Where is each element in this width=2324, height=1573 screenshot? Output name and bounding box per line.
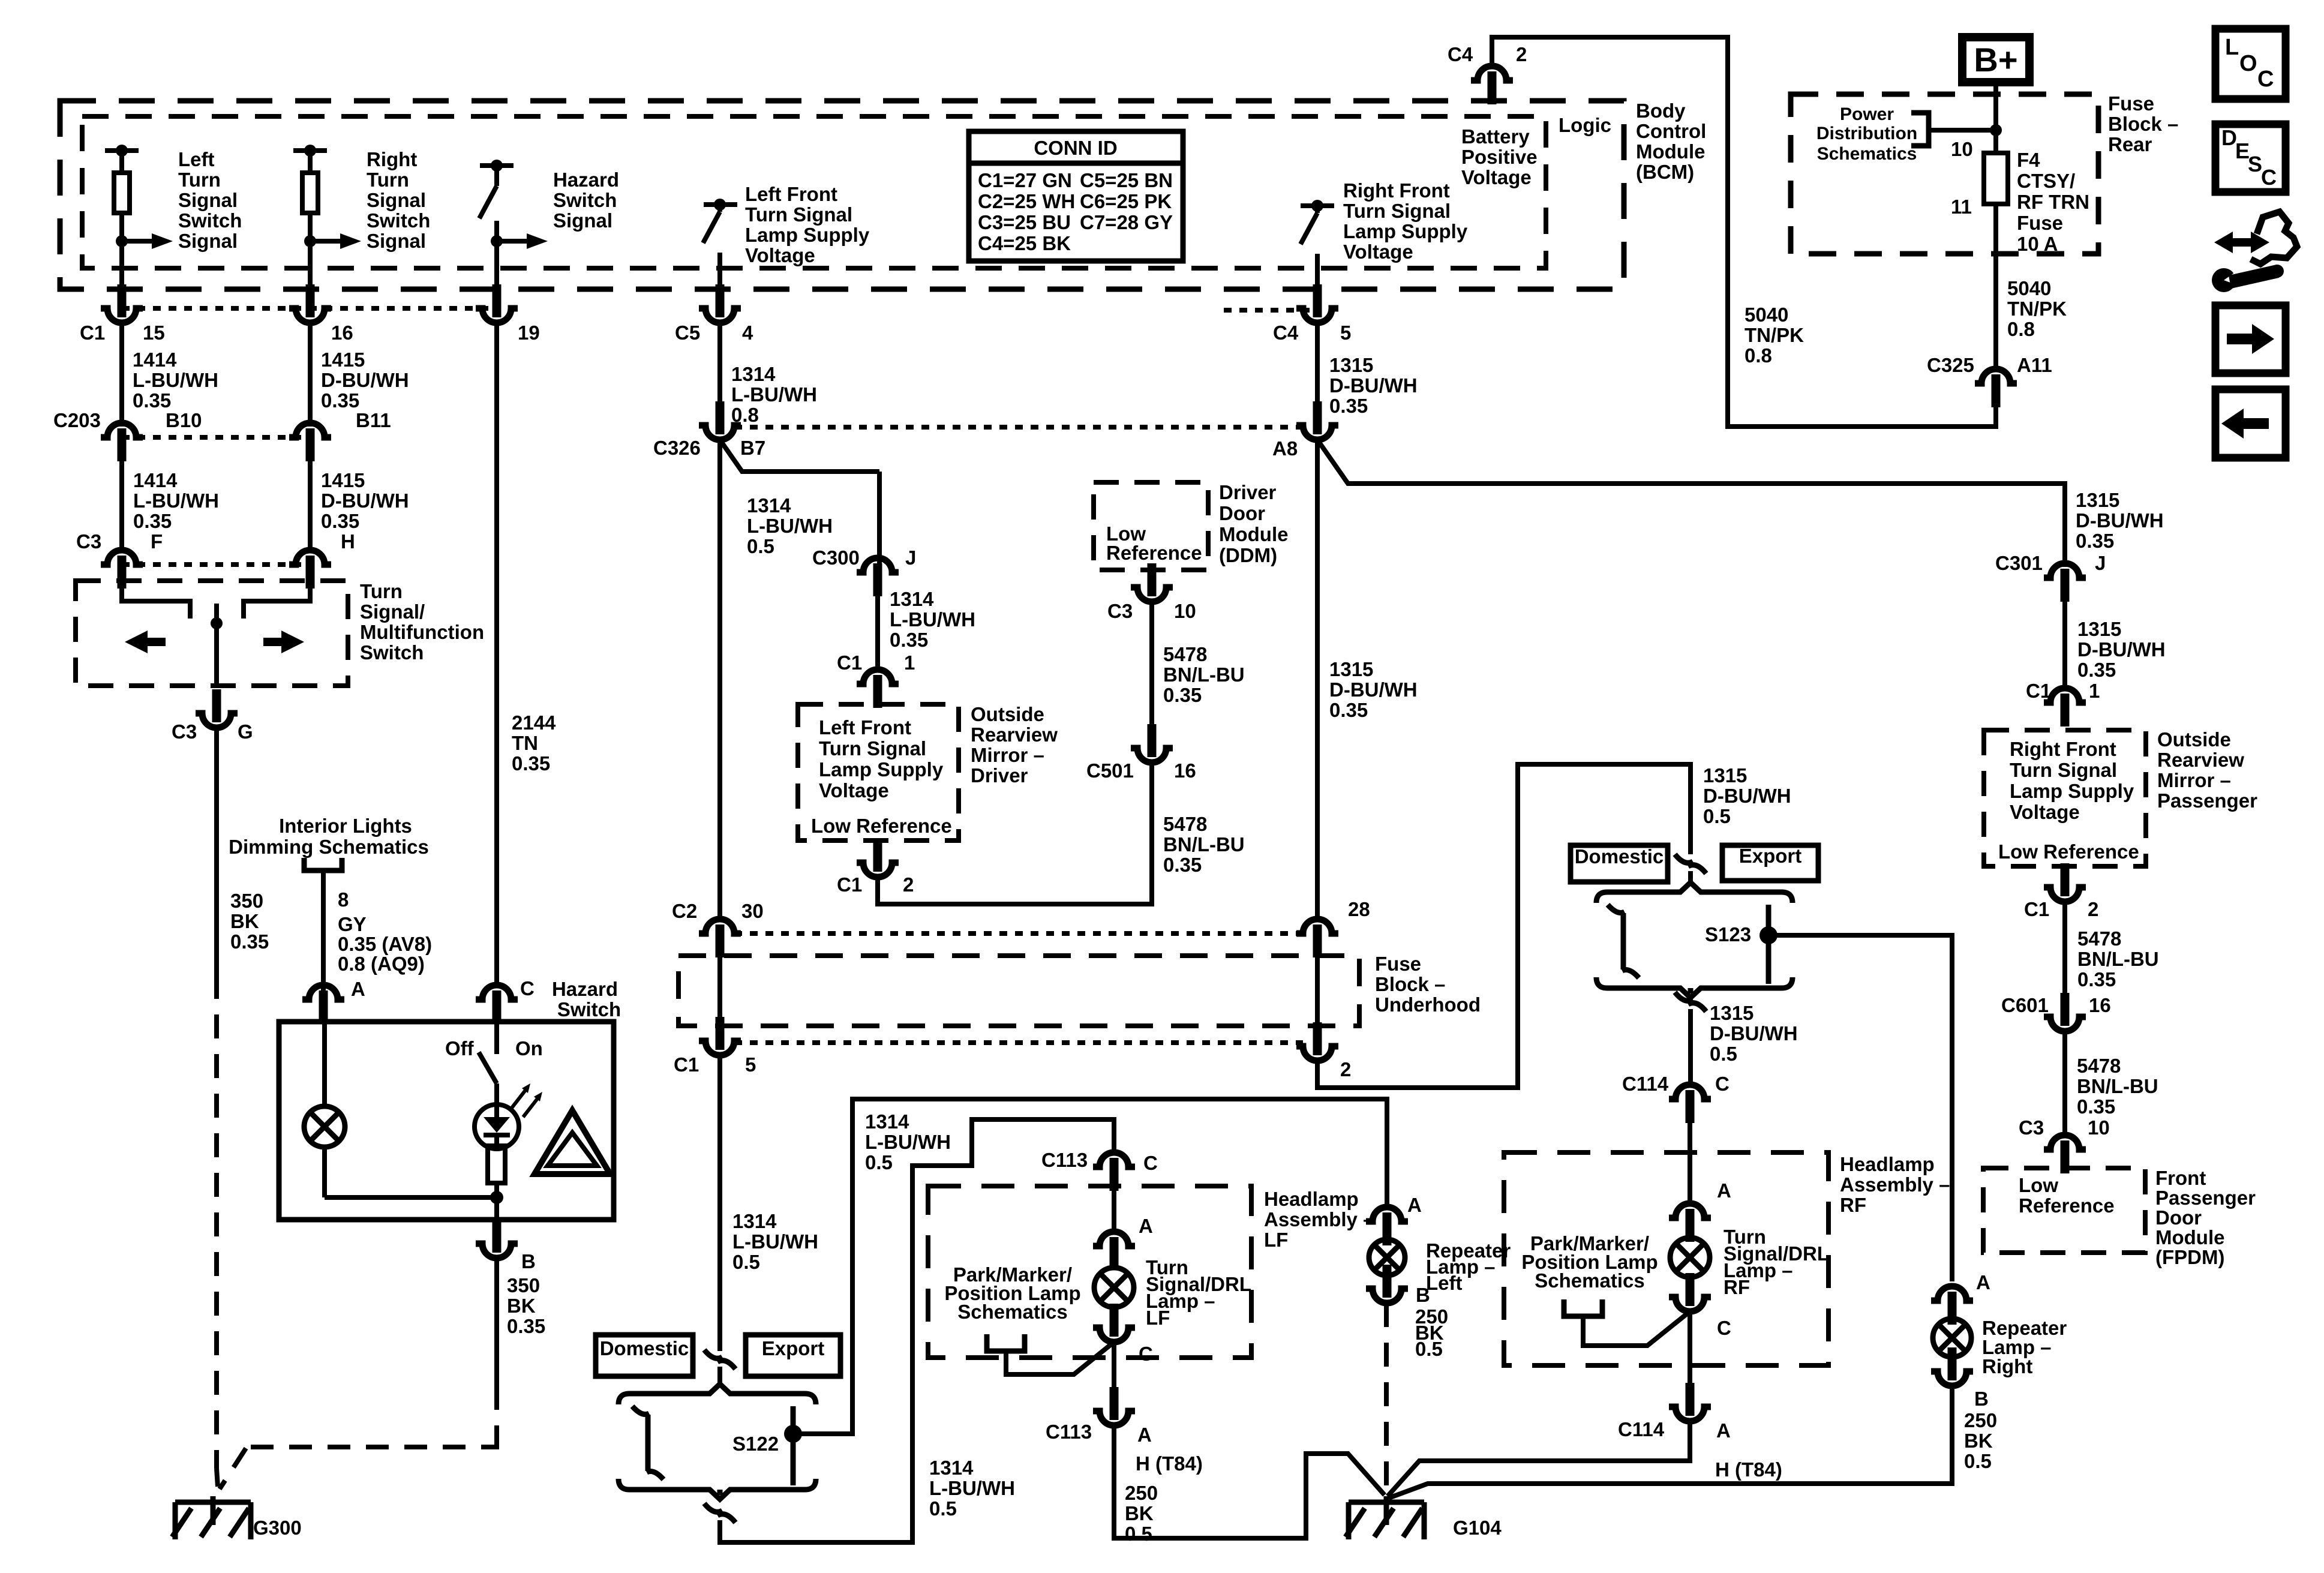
svg-text:Turn Signal: Turn Signal <box>2010 759 2117 781</box>
svg-text:Hazard: Hazard <box>552 978 618 1000</box>
wire hazard switch common <box>494 1022 499 1054</box>
svg-text:Front: Front <box>2155 1167 2206 1189</box>
label box Domestic <box>596 1335 693 1376</box>
svg-text:0.35: 0.35 <box>2077 659 2116 681</box>
svg-text:H (T84): H (T84) <box>1136 1452 1203 1475</box>
svg-text:Multifunction: Multifunction <box>360 621 484 643</box>
svg-text:15: 15 <box>143 322 165 344</box>
svg-text:BK: BK <box>1125 1502 1154 1524</box>
svg-text:L-BU/WH: L-BU/WH <box>133 490 219 512</box>
svg-text:C1: C1 <box>2024 898 2049 920</box>
svg-text:GY: GY <box>338 913 367 935</box>
svg-text:C: C <box>1717 1317 1731 1339</box>
svg-text:Rear: Rear <box>2108 133 2152 155</box>
svg-text:L: L <box>2225 35 2239 60</box>
svg-text:Driver: Driver <box>1219 481 1277 503</box>
svg-text:1314: 1314 <box>929 1457 974 1479</box>
svg-text:C: C <box>1139 1343 1153 1365</box>
svg-text:0.35: 0.35 <box>321 389 359 412</box>
wire dashed diagonal to G300 <box>220 1448 246 1489</box>
wire <box>1993 204 1998 369</box>
svg-text:Assembly –: Assembly – <box>1264 1208 1374 1230</box>
svg-text:0.35: 0.35 <box>1329 395 1368 417</box>
svg-text:J: J <box>905 547 916 569</box>
svg-text:Block –: Block – <box>2108 113 2178 135</box>
wire 350 BK dashed to G300 <box>214 975 219 1469</box>
svg-text:(DDM): (DDM) <box>1219 544 1277 566</box>
svg-text:1314: 1314 <box>731 363 776 385</box>
connector line (dotted) C203 <box>122 435 310 440</box>
svg-text:Logic: Logic <box>1559 114 1611 136</box>
wire 1415 <box>308 323 313 427</box>
svg-text:10: 10 <box>2088 1116 2110 1139</box>
wire <box>308 241 313 288</box>
svg-text:C3: C3 <box>1107 600 1133 622</box>
svg-text:D-BU/WH: D-BU/WH <box>321 490 409 512</box>
connector C203 pin B10 <box>101 423 143 437</box>
connector line (dotted) C3 <box>122 562 310 567</box>
svg-text:Signal: Signal <box>178 230 238 252</box>
svg-text:A: A <box>1976 1271 1990 1293</box>
svg-text:1315: 1315 <box>2076 489 2119 511</box>
svg-text:A: A <box>1717 1179 1731 1202</box>
wire <box>875 595 880 670</box>
connector C114 pin A <box>1686 1383 1695 1416</box>
svg-text:30: 30 <box>741 900 764 922</box>
icon jump arrow with wrench <box>2214 232 2269 253</box>
connector C114 pin C <box>1669 1085 1711 1099</box>
svg-text:350: 350 <box>230 890 263 912</box>
svg-text:1315: 1315 <box>1703 764 1747 786</box>
connector headlamp RF pin C (internal) <box>1686 1273 1695 1306</box>
svg-text:10: 10 <box>1951 138 1973 160</box>
wire hazard 19 to hazard switch <box>494 323 499 986</box>
wire mirror low ref to C501 <box>878 762 1152 904</box>
connector C3 pin F <box>101 550 143 565</box>
svg-text:C326: C326 <box>653 437 701 459</box>
svg-text:A8: A8 <box>1272 437 1298 460</box>
wire <box>2062 902 2067 997</box>
svg-text:Right Front: Right Front <box>2010 738 2116 760</box>
svg-text:Rearview: Rearview <box>971 724 1058 746</box>
svg-text:0.5: 0.5 <box>1125 1523 1152 1545</box>
connector C325 pin A11 <box>1975 369 2017 383</box>
svg-text:0.8: 0.8 <box>1744 344 1772 367</box>
svg-text:5040: 5040 <box>1744 304 1788 326</box>
node S122 <box>784 1425 802 1443</box>
lamp hazard illumination <box>322 1022 327 1107</box>
wire <box>2062 601 2067 688</box>
connector C301 pin J <box>2044 563 2086 578</box>
svg-text:A11: A11 <box>2017 354 2052 376</box>
svg-text:Switch: Switch <box>553 189 617 211</box>
svg-text:1314: 1314 <box>865 1110 909 1133</box>
wire 1414 <box>119 323 124 427</box>
svg-text:250: 250 <box>1964 1409 1997 1431</box>
svg-text:On: On <box>515 1037 543 1059</box>
label box Export <box>1722 845 1818 881</box>
wire <box>119 459 124 551</box>
svg-text:0.35: 0.35 <box>133 510 172 532</box>
svg-text:(BCM): (BCM) <box>1636 161 1694 183</box>
wire <box>494 1083 499 1105</box>
svg-text:Left Front: Left Front <box>819 716 911 739</box>
svg-text:2: 2 <box>2088 898 2098 920</box>
module box Outside Rearview Mirror Driver <box>798 704 959 840</box>
svg-text:0.35: 0.35 <box>133 389 171 412</box>
svg-text:D-BU/WH: D-BU/WH <box>1329 374 1418 397</box>
svg-text:1414: 1414 <box>133 469 178 491</box>
svg-text:1314: 1314 <box>747 494 791 517</box>
svg-text:C: C <box>2257 67 2274 92</box>
reference bracket park/marker LF <box>987 1334 1025 1351</box>
wire A8 down to 28 <box>1315 440 1320 922</box>
splice branch left <box>645 1415 651 1471</box>
svg-text:L-BU/WH: L-BU/WH <box>890 608 975 631</box>
svg-text:Hazard: Hazard <box>553 169 619 191</box>
svg-text:0.35: 0.35 <box>230 930 269 953</box>
svg-text:TN/PK: TN/PK <box>1744 324 1804 346</box>
icon DESC box <box>2215 124 2286 192</box>
connector line (dotted) C4 <box>1224 308 1317 313</box>
connector line (dotted) C1 <box>122 306 497 311</box>
wire <box>494 1197 499 1220</box>
svg-text:Lamp Supply: Lamp Supply <box>819 758 944 781</box>
svg-text:C1: C1 <box>837 873 862 896</box>
svg-text:Fuse: Fuse <box>2017 212 2063 234</box>
wire 1315 from fuse block 2 to domestic/export <box>1317 764 1691 1088</box>
svg-text:RF: RF <box>1724 1276 1750 1298</box>
svg-text:C1: C1 <box>674 1053 699 1076</box>
svg-text:Low Reference: Low Reference <box>1998 840 2139 863</box>
svg-text:BK: BK <box>1964 1430 1993 1452</box>
svg-text:C3: C3 <box>76 530 101 553</box>
wire <box>717 1367 722 1384</box>
module box Headlamp Assembly LF <box>928 1186 1251 1358</box>
svg-text:250: 250 <box>1125 1482 1158 1504</box>
connector C3 pin 10 (FPDM) <box>2044 1135 2086 1149</box>
svg-text:D-BU/WH: D-BU/WH <box>1703 785 1791 807</box>
svg-text:Voltage: Voltage <box>1343 241 1413 263</box>
node center pole <box>211 617 223 629</box>
connector C3 pin 10 (DDM) <box>1148 563 1157 596</box>
svg-text:Block –: Block – <box>1375 973 1445 995</box>
svg-text:1: 1 <box>2089 680 2100 702</box>
svg-text:B7: B7 <box>740 437 765 459</box>
svg-text:D-BU/WH: D-BU/WH <box>1710 1022 1798 1044</box>
svg-text:G104: G104 <box>1453 1517 1502 1539</box>
svg-text:1415: 1415 <box>321 469 365 491</box>
svg-text:5478: 5478 <box>2077 927 2121 950</box>
wire C1/5 down <box>717 1055 722 1351</box>
connector C1 pin 2 (passenger mirror) <box>2061 863 2070 896</box>
wire C5 to C326 <box>717 323 722 406</box>
lamp turn signal/DRL LF <box>1094 1268 1134 1307</box>
node fuse feed <box>1990 124 2002 136</box>
arrow right (turn signal) <box>281 631 304 653</box>
svg-text:BK: BK <box>507 1295 536 1317</box>
splice branch right S123 <box>1766 905 1771 984</box>
wire to C114 C <box>1688 1009 1693 1085</box>
svg-text:0.35: 0.35 <box>1163 684 1202 706</box>
switch left front turn signal lamp supply <box>704 202 737 207</box>
ground G104 <box>1349 1500 1424 1505</box>
svg-text:0.8: 0.8 <box>2007 318 2035 340</box>
svg-text:16: 16 <box>331 322 353 344</box>
module box Outside Rearview Mirror Passenger <box>1984 730 2146 866</box>
svg-text:1315: 1315 <box>1710 1002 1753 1024</box>
svg-text:C1: C1 <box>2026 680 2051 702</box>
svg-text:C4: C4 <box>1273 322 1299 344</box>
module box Turn Signal/Multifunction Switch <box>76 581 348 686</box>
svg-text:16: 16 <box>2089 994 2111 1016</box>
connector repeater left pin A <box>1366 1207 1408 1221</box>
svg-text:1414: 1414 <box>133 349 177 371</box>
inline connector <box>1688 988 1694 993</box>
svg-text:O: O <box>2239 51 2257 76</box>
svg-text:Signal/: Signal/ <box>360 601 425 623</box>
inline connector <box>704 1350 722 1358</box>
wire C113 A to G104 <box>1114 1425 1385 1538</box>
wire rail <box>325 1195 497 1200</box>
svg-text:C113: C113 <box>1046 1421 1092 1443</box>
svg-text:0.8 (AQ9): 0.8 (AQ9) <box>338 953 425 975</box>
wire left contact <box>122 587 190 619</box>
svg-text:TN: TN <box>512 732 538 754</box>
svg-text:A: A <box>1407 1194 1422 1216</box>
svg-text:1315: 1315 <box>1329 658 1373 680</box>
warning triangle hazard <box>535 1110 610 1174</box>
svg-text:C301: C301 <box>1995 552 2043 574</box>
svg-text:Signal: Signal <box>553 209 612 232</box>
wire right contact <box>244 587 310 619</box>
svg-text:Module: Module <box>1636 140 1705 163</box>
connector repeater left pin B <box>1383 1265 1392 1298</box>
wire <box>1688 871 1693 882</box>
svg-text:Turn: Turn <box>360 580 403 602</box>
svg-text:C4=25 BK: C4=25 BK <box>978 232 1071 254</box>
wire <box>494 221 499 288</box>
connector C1 pin 1 (passenger mirror) <box>2044 688 2086 703</box>
svg-text:1: 1 <box>904 652 915 674</box>
wire <box>1688 1311 1692 1383</box>
svg-text:Left Front: Left Front <box>745 183 837 205</box>
connector C2 pin 30 <box>699 919 741 933</box>
wire S122 to repeater left <box>793 1099 1387 1434</box>
svg-text:CTSY/: CTSY/ <box>2017 170 2075 192</box>
svg-text:C5=25 BN: C5=25 BN <box>1080 169 1173 191</box>
svg-text:Low: Low <box>2019 1174 2058 1196</box>
wire 8 GY <box>321 870 326 995</box>
resistor right turn signal <box>302 173 318 213</box>
svg-text:Headlamp: Headlamp <box>1840 1153 1935 1175</box>
svg-text:Turn Signal: Turn Signal <box>819 737 926 760</box>
svg-text:G: G <box>238 721 253 743</box>
svg-text:11: 11 <box>1951 196 1972 218</box>
wire branch to C301 <box>1317 440 2065 567</box>
svg-text:F4: F4 <box>2017 149 2040 171</box>
svg-text:S123: S123 <box>1705 923 1751 945</box>
svg-text:Right: Right <box>367 148 417 170</box>
svg-text:LF: LF <box>1264 1229 1288 1251</box>
connector headlamp LF pin C (internal) <box>1110 1304 1119 1337</box>
svg-text:5: 5 <box>745 1053 756 1076</box>
connector C4 pin 2 <box>1471 66 1513 80</box>
svg-text:Rearview: Rearview <box>2157 749 2244 771</box>
wire branch to C300 <box>720 440 879 472</box>
svg-text:C501: C501 <box>1086 760 1134 782</box>
svg-text:Schematics: Schematics <box>1817 144 1917 164</box>
svg-text:D-BU/WH: D-BU/WH <box>1329 679 1418 701</box>
svg-text:1314: 1314 <box>890 588 934 610</box>
svg-text:Export: Export <box>1739 845 1802 867</box>
lamp repeater left <box>1369 1239 1405 1275</box>
wire 350 BK to G300 <box>494 1258 499 1387</box>
connector hazard switch pin C <box>476 985 518 999</box>
svg-text:Switch: Switch <box>367 209 430 232</box>
connector C601 pin 16 <box>2061 993 2070 1026</box>
connector C113 pin C <box>1093 1152 1135 1167</box>
svg-text:C601: C601 <box>2001 994 2049 1016</box>
svg-text:Signal: Signal <box>367 230 426 252</box>
reference bracket interior lights dimming <box>304 858 342 870</box>
svg-text:Turn Signal: Turn Signal <box>1343 200 1451 222</box>
svg-text:Driver: Driver <box>971 764 1028 786</box>
B+ battery terminal <box>1962 37 2029 82</box>
node S123 <box>1759 926 1777 944</box>
splice branch right S122 <box>791 1406 796 1485</box>
reference bracket park/marker RF <box>1564 1299 1602 1316</box>
connector line (dotted) <box>734 931 1303 936</box>
svg-text:L-BU/WH: L-BU/WH <box>865 1131 951 1153</box>
svg-text:A: A <box>1137 1424 1152 1446</box>
splice brace bottom <box>1596 977 1792 998</box>
svg-text:C4: C4 <box>1448 43 1473 65</box>
svg-text:C1: C1 <box>837 652 862 674</box>
svg-text:C114: C114 <box>1618 1418 1665 1440</box>
svg-text:C113: C113 <box>1041 1149 1088 1171</box>
svg-text:B: B <box>521 1250 536 1272</box>
connector C1 pin 15 <box>118 284 127 317</box>
svg-text:Voltage: Voltage <box>1461 166 1532 188</box>
svg-text:Passenger: Passenger <box>2155 1187 2256 1209</box>
node left turn signal switch signal <box>116 235 128 247</box>
arrow left (turn signal) <box>125 631 148 653</box>
connector 28 (fuse block underhood) <box>1296 919 1338 933</box>
svg-text:Underhood: Underhood <box>1375 993 1481 1016</box>
svg-text:S: S <box>2248 152 2262 176</box>
svg-text:Module: Module <box>1219 523 1288 545</box>
svg-text:Right: Right <box>1982 1355 2032 1377</box>
svg-text:0.35: 0.35 <box>512 752 550 775</box>
svg-text:0.5: 0.5 <box>1703 805 1731 827</box>
module box Headlamp Assembly RF <box>1504 1152 1828 1365</box>
svg-text:2: 2 <box>903 873 914 896</box>
connector C326 pin B7 <box>716 401 725 434</box>
wire <box>717 956 722 1017</box>
switch blade hazard <box>479 1052 497 1083</box>
svg-text:Door: Door <box>1219 502 1265 524</box>
lamp turn signal/DRL RF <box>1670 1238 1710 1277</box>
svg-text:Lamp Supply: Lamp Supply <box>1343 220 1468 242</box>
svg-text:BN/L-BU: BN/L-BU <box>2077 948 2159 970</box>
wire <box>2062 1031 2067 1135</box>
svg-text:0.5: 0.5 <box>1964 1450 1992 1472</box>
svg-text:Reference: Reference <box>1106 542 1202 564</box>
svg-text:Signal: Signal <box>178 189 238 211</box>
node hazard lamp join <box>490 1191 503 1204</box>
svg-text:C7=28 GY: C7=28 GY <box>1080 211 1173 233</box>
wire <box>1315 254 1320 288</box>
wire S122 out to C113 C <box>720 1119 1114 1542</box>
svg-text:C: C <box>520 977 535 999</box>
svg-text:A: A <box>1139 1215 1153 1237</box>
module box BCM logic inner <box>82 116 1546 268</box>
wire C326 down to C2 <box>717 440 722 922</box>
wire <box>717 253 722 288</box>
wire <box>1112 1342 1116 1387</box>
wire <box>119 241 124 288</box>
node hazard switch signal <box>491 235 503 247</box>
svg-text:Assembly –: Assembly – <box>1840 1173 1950 1196</box>
svg-text:C203: C203 <box>53 409 101 431</box>
wire center pole <box>214 604 219 688</box>
svg-text:S122: S122 <box>732 1433 779 1455</box>
resistor left turn signal <box>114 173 130 213</box>
svg-text:0.5: 0.5 <box>865 1151 893 1173</box>
svg-text:L-BU/WH: L-BU/WH <box>731 383 817 406</box>
switch right front turn signal lamp supply <box>1301 203 1334 208</box>
wire <box>1315 956 1320 1022</box>
svg-text:CONN ID: CONN ID <box>1034 137 1117 159</box>
node right turn signal switch signal <box>304 235 316 247</box>
svg-text:2: 2 <box>1516 43 1527 65</box>
svg-text:L-BU/WH: L-BU/WH <box>747 515 833 537</box>
svg-text:BN/L-BU: BN/L-BU <box>1163 664 1245 686</box>
svg-text:10 A: 10 A <box>2017 233 2058 255</box>
svg-text:C: C <box>2261 165 2277 190</box>
svg-text:Module: Module <box>2155 1226 2224 1248</box>
svg-text:Outside: Outside <box>971 703 1044 725</box>
table CONN ID <box>969 131 1183 261</box>
icon arrow right box <box>2215 305 2286 373</box>
svg-text:Door: Door <box>2155 1206 2202 1229</box>
icon arrow left box <box>2215 389 2286 458</box>
label box Export <box>746 1335 840 1376</box>
svg-text:Control: Control <box>1636 120 1706 142</box>
module box Fuse Block - Underhood <box>678 956 1359 1026</box>
wire 350 BK <box>214 728 219 975</box>
connector hazard switch pin A <box>302 985 344 999</box>
wire A8 stub <box>1315 323 1320 406</box>
svg-text:0.35: 0.35 <box>890 629 928 651</box>
svg-text:C300: C300 <box>812 547 860 569</box>
wire S123 to repeater right <box>1768 935 1952 1281</box>
connector C113 pin A <box>1110 1387 1119 1420</box>
svg-text:BN/L-BU: BN/L-BU <box>1163 833 1245 855</box>
svg-text:BK: BK <box>230 910 259 932</box>
svg-text:C6=25 PK: C6=25 PK <box>1080 190 1172 212</box>
svg-text:0.35: 0.35 <box>507 1315 545 1337</box>
svg-text:D-BU/WH: D-BU/WH <box>2077 638 2166 661</box>
svg-text:(FPDM): (FPDM) <box>2155 1246 2224 1268</box>
svg-text:C2: C2 <box>672 900 697 922</box>
svg-text:C325: C325 <box>1927 354 1974 376</box>
svg-text:2144: 2144 <box>512 712 556 734</box>
svg-text:28: 28 <box>1348 898 1370 920</box>
svg-text:Power: Power <box>1840 104 1894 124</box>
splice branch left <box>1621 913 1626 969</box>
